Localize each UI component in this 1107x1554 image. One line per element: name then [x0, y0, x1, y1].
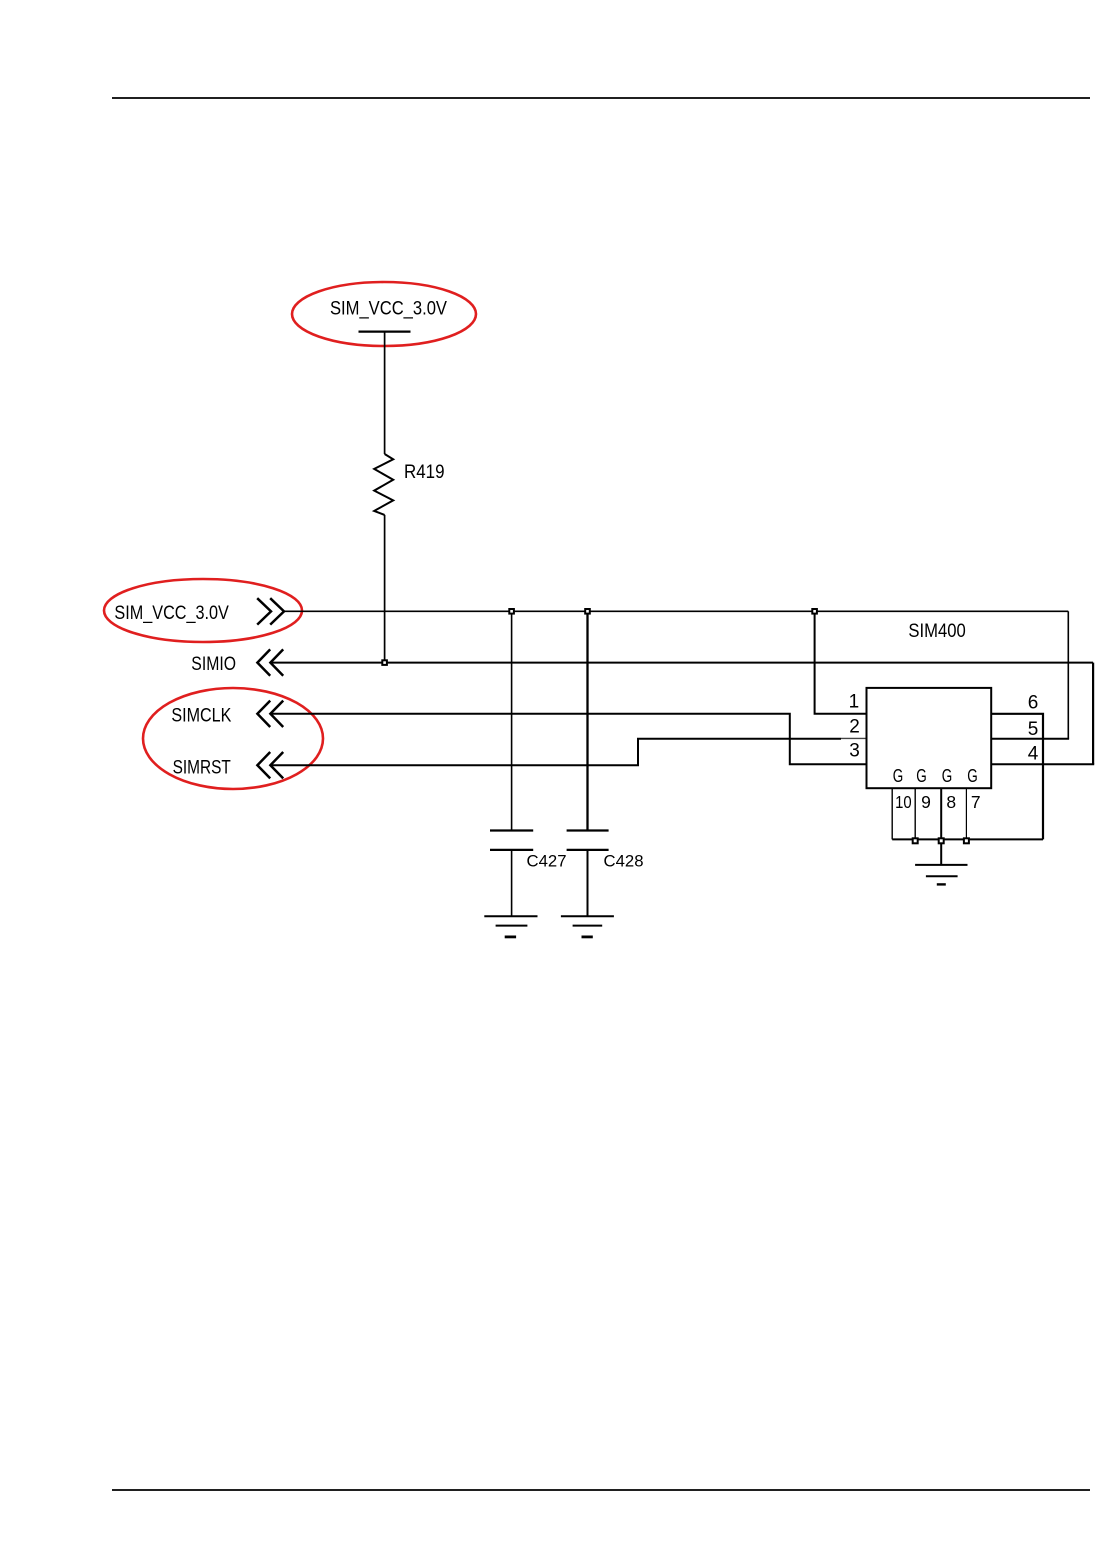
svg-text:SIM_VCC_3.0V: SIM_VCC_3.0V: [330, 297, 447, 319]
label C428: [604, 853, 644, 871]
junction: C427 tap on SIM_VCC net: [509, 609, 514, 614]
svg-text:3: 3: [849, 741, 860, 762]
pin number 10: [895, 792, 912, 812]
label SIM400: [908, 621, 965, 642]
label R419: [404, 462, 445, 483]
wire: R419 to SIMIO net: [384, 515, 386, 663]
net label SIMRST: [173, 756, 231, 778]
svg-text:SIMCLK: SIMCLK: [171, 705, 231, 727]
capacitor C427: [490, 611, 533, 916]
wire: SIMIO net horizontal: [270, 662, 1093, 664]
port chevron out SIM_VCC_3.0V: [257, 598, 284, 624]
wire: SIMRST to pin 2: [270, 738, 866, 765]
wire: pin 8 to ground: [940, 788, 942, 865]
junction: C428 tap on SIM_VCC net: [585, 609, 590, 614]
svg-text:7: 7: [971, 792, 981, 812]
pin number 3: [849, 741, 860, 762]
svg-text:R419: R419: [404, 462, 445, 483]
junction: pin 1 tap on SIM_VCC net: [812, 609, 817, 614]
svg-text:2: 2: [849, 716, 860, 737]
wire: SIMCLK to pin 3: [270, 714, 866, 764]
wire: SIM_VCC_3.0V down to pin 5: [992, 611, 1070, 738]
pin label G (pin 8): [942, 766, 953, 786]
svg-text:SIM400: SIM400: [908, 621, 965, 642]
wire: power bar to resistor R419: [384, 332, 386, 454]
power bar symbol: [359, 331, 411, 333]
red highlight ellipse around top power flag: [292, 282, 476, 346]
port chevron in SIMIO: [257, 649, 283, 675]
svg-text:G: G: [942, 766, 953, 786]
wire: pin 7 to ground bus: [965, 788, 967, 840]
wire: pin 6 to ground bus: [992, 714, 1044, 840]
svg-text:G: G: [916, 766, 927, 786]
svg-text:6: 6: [1028, 692, 1039, 713]
pin number 6: [1028, 692, 1039, 713]
connector SIM400 body: [867, 688, 992, 788]
net label SIM_VCC_3.0V (left port): [114, 602, 228, 624]
svg-text:C427: C427: [527, 853, 567, 871]
svg-text:8: 8: [946, 792, 956, 812]
junction: R419 tap on SIMIO net: [382, 660, 387, 665]
pin number 2: [849, 716, 860, 737]
svg-text:C428: C428: [604, 853, 644, 871]
red highlight ellipse around SIMCLK / SIMRST ports: [143, 688, 323, 789]
svg-text:SIMIO: SIMIO: [191, 653, 236, 675]
pin number 8: [946, 792, 956, 812]
svg-text:10: 10: [895, 792, 912, 812]
svg-text:SIMRST: SIMRST: [173, 756, 231, 778]
junction: pin 9 at ground bus: [913, 838, 918, 843]
label C427: [527, 853, 567, 871]
svg-text:G: G: [893, 766, 904, 786]
svg-text:5: 5: [1028, 719, 1039, 740]
svg-text:9: 9: [921, 792, 931, 812]
wire: SIM_VCC junction down to pin 1: [815, 611, 867, 714]
port chevron in SIMRST: [257, 752, 283, 778]
resistor R419: [374, 454, 393, 515]
junction: pin 7 at ground bus: [964, 838, 969, 843]
pin number 1: [849, 691, 860, 712]
pin label G (pin 10): [893, 766, 904, 786]
ground under SIM400: [915, 865, 967, 885]
ground under C427: [484, 916, 537, 937]
ground under C428: [561, 916, 614, 937]
power flag label SIM_VCC_3.0V (top): [330, 297, 447, 319]
svg-text:G: G: [967, 766, 978, 786]
net label SIMIO: [191, 653, 236, 675]
pin number 7: [971, 792, 981, 812]
pin number 4: [1028, 743, 1039, 764]
port chevron in SIMCLK: [257, 701, 283, 727]
pin label G (pin 7): [967, 766, 978, 786]
svg-text:1: 1: [849, 691, 860, 712]
ground bus wire: [892, 838, 1043, 840]
pin number 5: [1028, 719, 1039, 740]
svg-text:4: 4: [1028, 743, 1039, 764]
wire: SIMIO down to pin 4: [992, 663, 1095, 765]
net label SIMCLK: [171, 705, 231, 727]
junction: pin 8 at ground bus: [939, 838, 944, 843]
wire: pin 9 to ground bus: [914, 788, 916, 840]
pin number 9: [921, 792, 931, 812]
svg-text:SIM_VCC_3.0V: SIM_VCC_3.0V: [114, 602, 228, 624]
red highlight ellipse around left SIM_VCC_3.0V port: [104, 579, 302, 642]
wire: SIM_VCC_3.0V net horizontal: [284, 610, 1069, 612]
pin label G (pin 9): [916, 766, 927, 786]
wire: pin 10 to ground bus: [891, 788, 893, 839]
capacitor C428: [567, 611, 609, 916]
